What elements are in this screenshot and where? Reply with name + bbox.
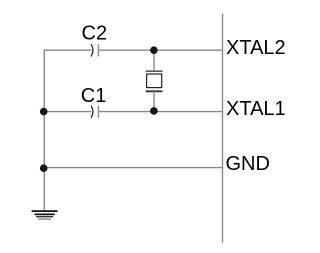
node: junction dot GND / left bus bbox=[40, 164, 48, 172]
capacitor C2 bbox=[91, 44, 98, 56]
wire: XTAL2 net, right segment to pin bbox=[99, 49, 223, 51]
svg-text:XTAL1: XTAL1 bbox=[226, 98, 286, 120]
device edge line (pin header) bbox=[222, 14, 224, 243]
crystal Y1 bbox=[146, 71, 163, 91]
node: junction dot XTAL1 / crystal bottom bbox=[150, 107, 158, 115]
node: junction dot XTAL2 / crystal top bbox=[150, 46, 158, 54]
wire: XTAL2 net, left segment bbox=[44, 49, 92, 51]
svg-text:GND: GND bbox=[226, 153, 270, 175]
node: junction dot XTAL1 / left bus bbox=[40, 108, 48, 116]
capacitor C1 bbox=[91, 106, 98, 118]
ground bbox=[32, 211, 58, 219]
wire: crystal bottom lead bbox=[153, 91, 155, 111]
wire: left vertical bus from XTAL2 corner down to ground bbox=[43, 50, 45, 211]
wire: crystal top lead bbox=[153, 50, 155, 71]
wire: GND net to pin bbox=[44, 167, 223, 169]
svg-text:C2: C2 bbox=[82, 22, 108, 44]
wire: XTAL1 net, right segment to pin bbox=[99, 111, 223, 113]
svg-text:C1: C1 bbox=[81, 85, 107, 107]
wire: XTAL1 net, left segment bbox=[44, 111, 92, 113]
svg-text:XTAL2: XTAL2 bbox=[226, 37, 286, 59]
